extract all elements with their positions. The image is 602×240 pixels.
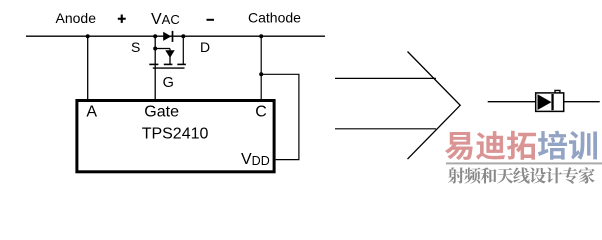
watermark logo text "易迪拓培训" [445,131,597,160]
watermark underline [446,162,602,164]
wire body stub [155,48,170,50]
svg-text:VDD: VDD [241,151,270,168]
MOSFET Q1 body diode [163,31,172,42]
node VDD tap junction [259,72,263,76]
svg-text:A: A [86,104,97,121]
wire through diode D1 [488,101,600,103]
big arrow head chevron [408,52,461,160]
node anode junction [86,34,90,38]
watermark tagline "射频和天线设计专家" [448,167,595,184]
svg-text:TPS2410: TPS2410 [142,126,209,143]
polarity - [207,19,215,21]
wire VDD to cathode loop [261,74,299,159]
diode D1 anode triangle [538,94,552,110]
wire top rail anode-cathode [26,35,325,37]
wire drain stub [182,36,184,64]
svg-text:Anode: Anode [56,10,97,26]
MOSFET Q1 channel segments [149,63,186,65]
svg-text:G: G [163,75,174,91]
node cathode junction [259,34,263,38]
svg-text:S: S [131,39,140,55]
svg-text:VAC: VAC [151,11,180,28]
big arrow shaft top line [335,77,436,79]
node drain junction [181,34,185,38]
diode D1 package box [536,93,564,112]
IC U1 TPS2410 body [77,101,274,172]
diode D1 cathode band notch [555,90,560,93]
big arrow shaft bottom line [335,128,436,130]
svg-text:D: D [200,39,210,55]
wire cathode to pin C [260,36,262,100]
MOSFET Q1 body arrow [165,49,174,65]
wire source/gate vertical [154,36,156,100]
MOSFET Q1 gate plate [153,67,185,69]
svg-text:Gate: Gate [144,104,179,121]
node body connection [153,47,157,51]
diode D1 cathode bar [551,94,553,110]
polarity + [118,15,126,23]
svg-text:C: C [255,104,267,121]
svg-text:Cathode: Cathode [248,10,301,26]
wire anode to pin A [87,36,89,100]
node source junction [153,34,157,38]
